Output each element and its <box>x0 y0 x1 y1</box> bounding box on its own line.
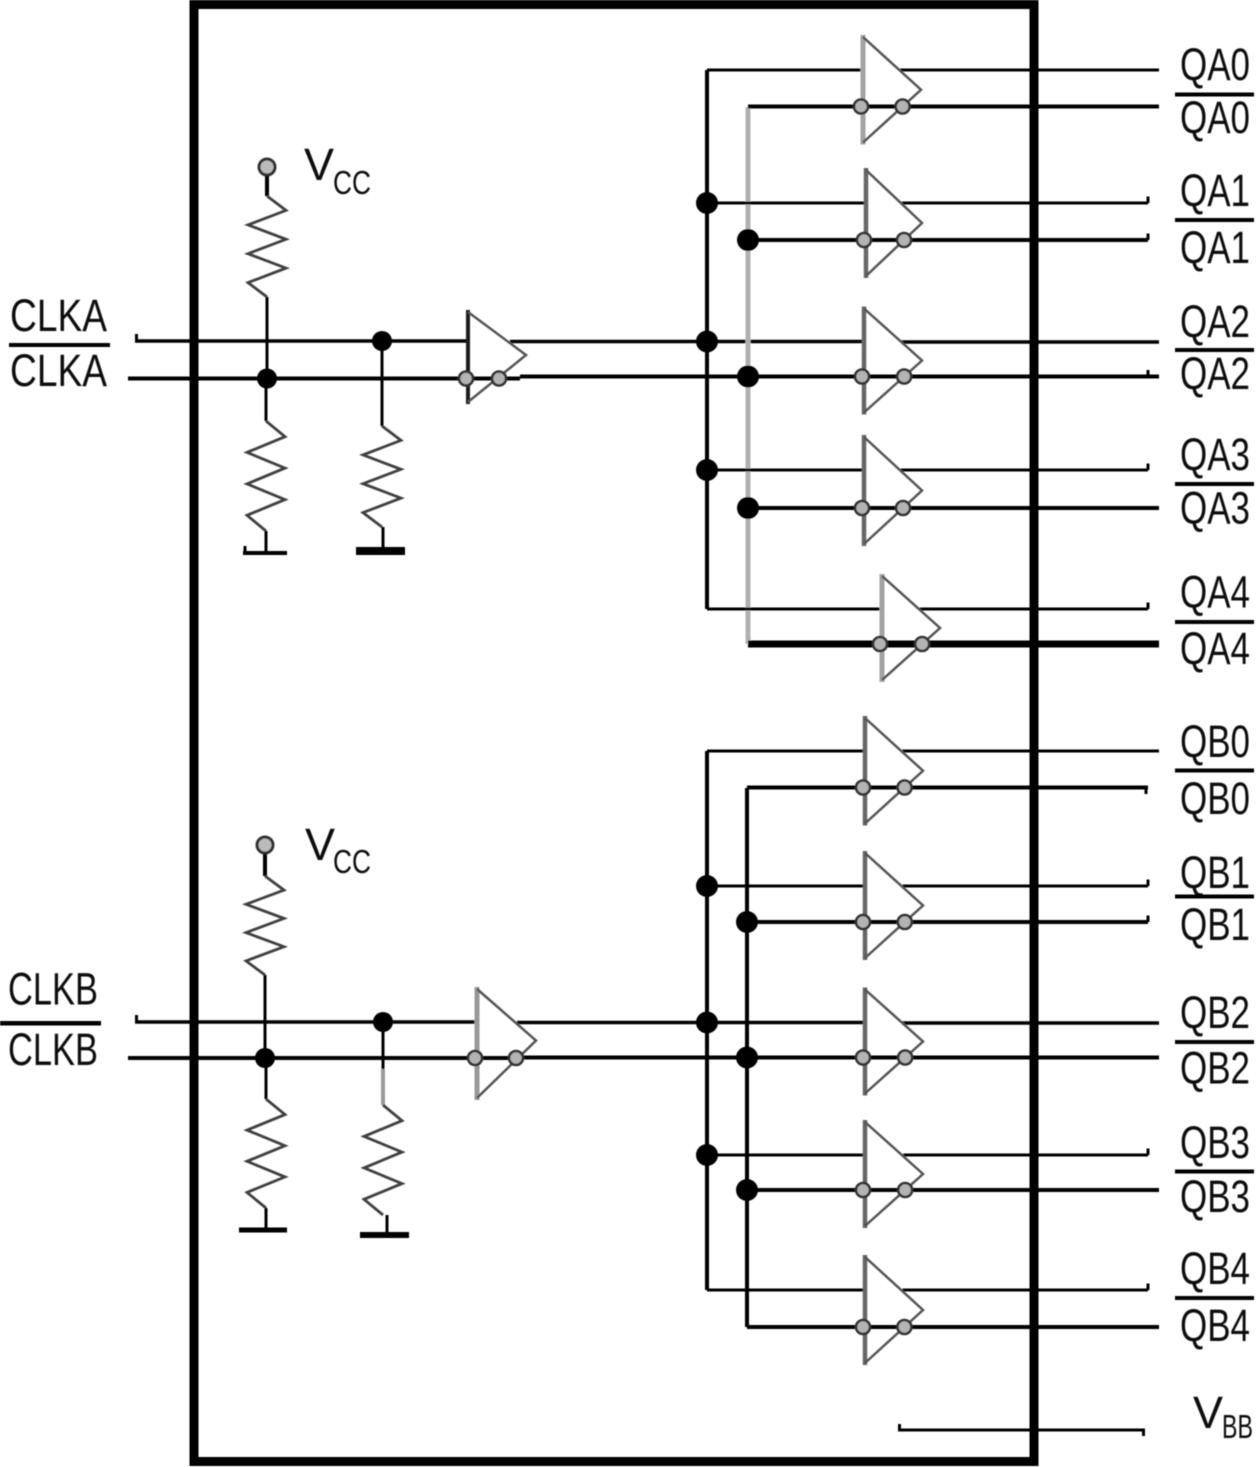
ground bar for R6 <box>239 1228 287 1233</box>
resistor R6 (pulldown on CLKBbar) <box>247 1058 285 1230</box>
svg-text:QA3: QA3 <box>1180 429 1250 480</box>
wire CLKBbar input through-line (net to QB2bar) <box>128 1056 1159 1061</box>
wire VBB output <box>898 1424 1145 1436</box>
wire CLKAbar input through-line (net to QA2bar) <box>128 370 1159 379</box>
junction dot CLKB/R5 node <box>373 1012 393 1032</box>
VCC terminal A (circle) <box>259 159 275 175</box>
resistor R5 (pulldown on CLKB) <box>364 1022 402 1233</box>
wire buffer QA4 true input/output (net QA4) <box>707 603 1148 610</box>
svg-text:QB2: QB2 <box>1180 1043 1250 1094</box>
output buffer QA0 (triangle U-QA0) <box>854 35 921 145</box>
svg-text:V: V <box>1193 1387 1223 1438</box>
ground bar for R5 <box>360 1232 409 1238</box>
svg-text:CLKA: CLKA <box>10 345 107 396</box>
ground bar for R3 <box>243 546 287 553</box>
QA0bar overline <box>1175 93 1254 97</box>
junction dot bus-B true / QB2 <box>696 1012 718 1034</box>
svg-text:CC: CC <box>333 164 371 201</box>
wire buffer QB3 complement input/output (net QB3bar) <box>747 1188 1159 1192</box>
output buffer QA1 (triangle U-QA1) <box>857 168 922 278</box>
QB4 port label <box>1180 1243 1250 1294</box>
svg-text:QA4: QA4 <box>1180 567 1250 618</box>
junction dot bus-A true / QA1 <box>696 192 718 214</box>
QA2bar overline <box>1175 348 1254 352</box>
svg-text:V: V <box>304 139 334 190</box>
wire buffer QA3 complement input/output (net QA3bar) <box>748 506 1159 510</box>
VBB label <box>1193 1387 1253 1445</box>
svg-text:QB0: QB0 <box>1180 773 1250 824</box>
QB2 port label <box>1180 987 1250 1038</box>
QA3bar port label <box>1180 483 1250 534</box>
wire CLKA input stub with end tick <box>135 334 468 341</box>
svg-text:QB1: QB1 <box>1180 899 1250 950</box>
svg-text:QB0: QB0 <box>1180 716 1250 767</box>
CLKAbar overline <box>9 343 110 347</box>
junction dot bus-A comp / QA1bar <box>737 229 759 251</box>
QB0 port label <box>1180 716 1250 767</box>
wire buffer QB3 true input/output (net QB3) <box>707 1149 1148 1156</box>
svg-text:QA4: QA4 <box>1180 623 1250 674</box>
QA1 port label <box>1180 165 1250 216</box>
QB1 port label <box>1180 847 1250 898</box>
node A true bus (vertical, section A) <box>705 70 709 609</box>
QA4bar port label <box>1180 623 1250 674</box>
junction dot bus-B true / QB1 <box>696 875 718 897</box>
junction dot bus-A comp / QA3bar <box>737 497 759 519</box>
junction dot bus-A comp / QA2bar <box>737 366 759 388</box>
svg-text:CC: CC <box>333 843 371 880</box>
svg-text:QA1: QA1 <box>1180 165 1250 216</box>
svg-text:QB3: QB3 <box>1180 1117 1250 1168</box>
junction dot bus-A true / QA2 <box>696 331 718 353</box>
resistor R4 (pullup from VCC to CLKBbar) <box>246 854 284 1058</box>
QB4bar overline <box>1175 1296 1254 1300</box>
QA1bar port label <box>1180 222 1250 273</box>
wire buffer QB4 true input/output (net QB4) <box>707 1284 1148 1291</box>
svg-text:CLKB: CLKB <box>8 964 98 1015</box>
wire buffer QB1 complement input/output (net QB1bar) <box>747 916 1148 923</box>
wire CLKB continuation to QB2 (through input buffer U2 and buffer QB2) <box>517 1021 1159 1025</box>
svg-text:BB: BB <box>1222 1408 1253 1445</box>
wire buffer QB4 complement input/output (net QB4bar) <box>747 1325 1159 1329</box>
QB3bar port label <box>1180 1171 1250 1222</box>
svg-text:QA1: QA1 <box>1180 222 1250 273</box>
wire CLKA continuation to QA2 (through input buffer U1 and buffer QA2) <box>510 340 1159 344</box>
CLKBbar overline <box>0 1021 101 1026</box>
VCC terminal B (circle) <box>257 837 273 853</box>
QB0bar overline <box>1175 769 1254 773</box>
VCC label B <box>305 819 371 880</box>
junction dot bus-B comp / QB1bar <box>736 911 758 933</box>
svg-text:V: V <box>305 819 335 870</box>
junction dot CLKA/R2 node <box>372 331 392 351</box>
QA3 port label <box>1180 429 1250 480</box>
QB2bar overline <box>1175 1040 1254 1044</box>
svg-text:QB4: QB4 <box>1180 1300 1250 1351</box>
QA2 port label <box>1180 296 1250 347</box>
wire buffer QA0 complement input/output (net QA0bar) <box>748 105 1159 109</box>
VCC label A <box>304 139 371 201</box>
junction dot CLKBbar/R4-R6 node <box>255 1048 275 1068</box>
svg-text:CLKA: CLKA <box>10 290 107 341</box>
node B true bus (vertical, section B) <box>705 751 709 1290</box>
svg-text:QA0: QA0 <box>1180 92 1250 143</box>
wire buffer QA3 true input/output (net QA3) <box>707 464 1148 471</box>
QB4bar port label <box>1180 1300 1250 1351</box>
QA2bar port label <box>1180 348 1250 399</box>
output buffer QA2 (triangle U-QA2) <box>855 307 922 415</box>
QA0bar port label <box>1180 92 1250 143</box>
input buffer U2 (CLKB differential receiver) <box>468 987 536 1100</box>
wire buffer QA1 complement input/output (net QA1bar) <box>748 234 1148 241</box>
output buffer QB4 (triangle U-QB4) <box>856 1255 923 1365</box>
QA1bar overline <box>1175 218 1254 222</box>
resistor R2 (pulldown on CLKA) <box>363 341 401 549</box>
wire buffer QB1 true input/output (net QB1) <box>707 880 1148 887</box>
junction dot bus-A true / QA3 <box>696 459 718 481</box>
resistor R3 (pulldown on CLKAbar) <box>247 379 285 553</box>
wire CLKB input stub with end tick <box>135 1015 477 1022</box>
CLKBbar port label <box>8 1024 98 1075</box>
wire buffer QA0 true input/output (net QA0) <box>707 69 1159 72</box>
node A complement bus (vertical, gray, section A) <box>746 107 751 644</box>
QA4 port label <box>1180 567 1250 618</box>
QA4bar overline <box>1175 620 1254 624</box>
output buffer QB0 (triangle U-QB0) <box>856 716 923 826</box>
node B complement bus (vertical, section B) <box>745 788 749 1327</box>
junction dot CLKAbar/R1-R3 node <box>257 369 277 389</box>
svg-text:QB1: QB1 <box>1180 847 1250 898</box>
output buffer QB2 (triangle U-QB2) <box>856 988 923 1096</box>
output buffer QB1 (triangle U-QB1) <box>856 851 923 960</box>
QA0 port label <box>1180 39 1250 90</box>
output buffer QA4 (triangle U-QA4) <box>873 574 940 682</box>
IC body outline (2x1:5 fanout buffer block) <box>194 5 1034 1462</box>
QB2bar port label <box>1180 1043 1250 1094</box>
svg-text:QB3: QB3 <box>1180 1171 1250 1222</box>
wire buffer QB0 complement input/output (net QB0bar) <box>747 788 1148 795</box>
svg-text:QA3: QA3 <box>1180 483 1250 534</box>
resistor R1 (pullup from VCC to CLKAbar) <box>248 176 286 379</box>
QB3 port label <box>1180 1117 1250 1168</box>
output buffer QA3 (triangle U-QA3) <box>855 435 922 546</box>
junction dot bus-B true / QB3 <box>696 1144 718 1166</box>
svg-text:QA2: QA2 <box>1180 296 1250 347</box>
svg-text:QB4: QB4 <box>1180 1243 1250 1294</box>
output buffer QB3 (triangle U-QB3) <box>856 1120 923 1228</box>
junction dot bus-B comp / QB2bar <box>736 1047 758 1069</box>
wire buffer QA1 true input/output (net QA1) <box>707 197 1148 204</box>
junction dot bus-B comp / QB3bar <box>736 1179 758 1201</box>
svg-text:QA0: QA0 <box>1180 39 1250 90</box>
svg-text:QA2: QA2 <box>1180 348 1250 399</box>
input buffer U1 (CLKA differential receiver) <box>459 310 526 404</box>
wire buffer QA4 complement input/output (net QA4bar) <box>748 641 1159 648</box>
wire buffer QB0 true input/output (net QB0) <box>707 750 1159 753</box>
QB1bar port label <box>1180 899 1250 950</box>
QA3bar overline <box>1175 482 1254 486</box>
ground bar for R2 (thick) <box>356 547 405 555</box>
svg-text:CLKB: CLKB <box>8 1024 98 1075</box>
CLKAbar port label <box>10 345 107 396</box>
QB0bar port label <box>1180 773 1250 824</box>
QB3bar overline <box>1175 1170 1254 1174</box>
svg-text:QB2: QB2 <box>1180 987 1250 1038</box>
CLKA port label <box>10 290 107 341</box>
QB1bar overline <box>1175 895 1254 899</box>
CLKB port label <box>8 964 98 1015</box>
